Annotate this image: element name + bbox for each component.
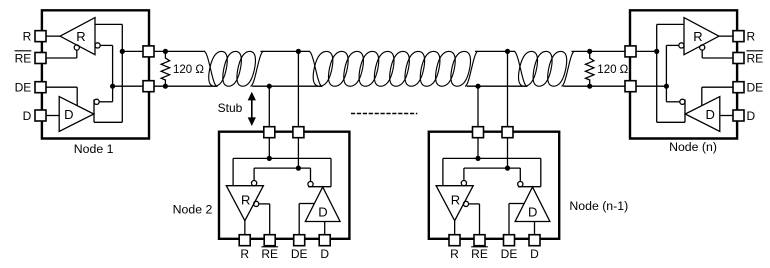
transceiver U4 node n pin RE (733, 53, 744, 64)
transceiver U1 node 1 wire RE enable (76, 50, 78, 58)
transceiver U1 node 1 box (42, 10, 149, 138)
svg-text:R: R (241, 192, 250, 207)
svg-text:D: D (747, 109, 756, 123)
transceiver U3 node n-1 driver inverting output bubble (518, 182, 523, 187)
wire stub node 2 pin B (297, 51, 299, 131)
wire twisted pair right section twist 1 (519, 51, 538, 86)
transceiver U1 node 1 wire DE enable (46, 86, 77, 88)
transceiver U1 node 1 receiver enable bubble (74, 45, 79, 50)
transceiver U3 node n-1 receiver R triangle (436, 186, 473, 221)
svg-text:R: R (240, 247, 249, 261)
wire dashed bus continuation (351, 113, 417, 115)
junction stub node2 B on bus A (296, 49, 301, 54)
transceiver U2 node 2 receiver noninverting input wire (232, 158, 234, 185)
wire bus B to node n (563, 85, 625, 87)
transceiver U1 node 1 driver inverting output bubble (94, 99, 99, 104)
transceiver U2 node 2 receiver inverting input bubble (252, 181, 257, 186)
transceiver U2 node 2 pin D (319, 235, 330, 246)
transceiver U1 node 1 pin D (35, 110, 46, 121)
junction stub node n-1 A on bus B (475, 84, 480, 89)
junction R2 bottom (587, 84, 592, 89)
transceiver U3 node n-1 wire DE enable (508, 204, 510, 235)
transceiver U1 node 1 wire net B vertical (112, 45, 114, 101)
transceiver U4 node n receiver noninverting input wire (657, 23, 684, 25)
wire twisted pair right section entry strand (514, 51, 527, 86)
transceiver U1 node 1 pin R (35, 31, 46, 42)
transceiver U1 node 1 receiver R triangle (60, 18, 95, 55)
wire twisted pair middle section twist 7 (405, 51, 425, 86)
wire twisted pair middle section entry strand (309, 51, 322, 86)
transceiver U2 node 2 driver inverting output bubble (308, 182, 313, 187)
transceiver U3 node n-1 wire inverting input (463, 168, 465, 180)
wire twisted pair middle section twist 3 (344, 51, 364, 86)
svg-text:Node 2: Node 2 (173, 202, 213, 216)
transceiver U1 node 1 wire driver noninverting output (94, 121, 122, 123)
transceiver U1 node 1 junction net A (120, 49, 125, 54)
svg-text:RE: RE (261, 247, 278, 261)
transceiver U2 node 2 wire inverting input (253, 168, 255, 180)
transceiver U1 node 1 driver D triangle (59, 97, 94, 132)
stub length arrow (251, 99, 253, 120)
transceiver U3 node n-1 driver output bar (518, 186, 541, 188)
junction R2 top (587, 49, 592, 54)
transceiver U4 node n wire D input (720, 115, 733, 117)
transceiver U3 node n-1 bus pin B (502, 127, 513, 138)
transceiver U3 node n-1 wire driver inverting output (519, 168, 521, 181)
transceiver U2 node 2 wire net A vertical (233, 157, 331, 159)
transceiver U2 node 2 bus pin A (264, 127, 275, 138)
transceiver U4 node n wire driver noninverting output (657, 121, 685, 123)
transceiver U3 node n-1 junction net A (475, 156, 480, 161)
transceiver U1 node 1 wire net A to bus pin (122, 50, 143, 52)
svg-text:RE: RE (747, 51, 764, 65)
transceiver U4 node n receiver enable bubble (700, 45, 705, 50)
svg-text:RE: RE (15, 51, 32, 65)
wire twisted pair middle section twist 6 (390, 51, 410, 86)
transceiver U4 node n receiver inverting input bubble (679, 43, 684, 48)
transceiver U4 node n bus pin B (625, 81, 636, 92)
transceiver U4 node n driver inverting output bubble (680, 99, 685, 104)
junction R1 bottom (163, 84, 168, 89)
wire stub node 2 pin A (268, 86, 270, 131)
transceiver U4 node n pin D (733, 110, 744, 121)
wire twisted pair right section exit strand (561, 51, 574, 86)
transceiver U4 node n pin R (733, 31, 744, 42)
transceiver U3 node n-1 pin D (529, 235, 540, 246)
transceiver U4 node n wire RE enable (701, 50, 703, 58)
transceiver U3 node n-1 box (429, 132, 559, 239)
transceiver U3 node n-1 wire R output (454, 221, 456, 235)
svg-text:R: R (23, 30, 32, 44)
svg-text:R: R (451, 192, 460, 207)
transceiver U2 node 2 wire net A to bus pin (268, 137, 270, 158)
transceiver U2 node 2 bus pin B (293, 127, 304, 138)
transceiver U4 node n wire driver inverting output (666, 101, 679, 103)
transceiver U2 node 2 wire DE enable (298, 204, 300, 235)
svg-text:DE: DE (291, 247, 308, 261)
transceiver U2 node 2 pin DE (294, 235, 305, 246)
wire twisted pair left section twist 2 (223, 51, 242, 86)
transceiver U4 node n wire net B to bus pin (636, 85, 667, 87)
transceiver U4 node n wire net A to bus pin (636, 50, 657, 52)
wire bus B node1 to twisted pair (154, 85, 218, 87)
transceiver U4 node n pin DE (733, 82, 744, 93)
wire bus B tap section right (467, 85, 528, 87)
transceiver U3 node n-1 bus pin A (473, 127, 484, 138)
svg-text:120 Ω: 120 Ω (173, 64, 204, 76)
wire stub node n-1 pin B (507, 51, 509, 131)
wire twisted pair middle section twist 9 (436, 51, 456, 86)
svg-text:D: D (318, 205, 327, 220)
transceiver U3 node n-1 junction net B (505, 166, 510, 171)
svg-text:R: R (747, 30, 756, 44)
svg-text:Node (n-1): Node (n-1) (569, 199, 628, 213)
wire bus B tap section left (252, 85, 322, 87)
wire twisted pair left section twist 3 (237, 51, 256, 86)
transceiver U4 node n wire DE enable (702, 86, 733, 88)
transceiver U1 node 1 wire net B to bus pin (113, 85, 144, 87)
transceiver U1 node 1 wire D input (46, 115, 59, 117)
svg-text:Node (n): Node (n) (669, 140, 717, 154)
transceiver U2 node 2 driver output bar (308, 186, 331, 188)
transceiver U2 node 2 box (219, 132, 349, 239)
transceiver U3 node n-1 receiver noninverting input wire (442, 158, 444, 185)
transceiver U2 node 2 receiver enable bubble (254, 201, 259, 206)
svg-text:DE: DE (501, 247, 518, 261)
transceiver U4 node n receiver R triangle (684, 18, 719, 55)
transceiver U2 node 2 wire net B vertical (254, 167, 310, 169)
svg-text:D: D (530, 247, 539, 261)
transceiver U3 node n-1 wire net B to bus pin (507, 137, 509, 168)
transceiver U2 node 2 wire D input (324, 222, 326, 235)
wire twisted pair right section twist 3 (548, 51, 567, 86)
transceiver U1 node 1 bus pin B (143, 81, 154, 92)
wire twisted pair middle section exit strand (465, 51, 478, 86)
transceiver U2 node 2 receiver R triangle (226, 186, 263, 221)
wire twisted pair middle section twist 1 (313, 51, 333, 86)
svg-text:DE: DE (15, 81, 32, 95)
svg-text:D: D (23, 109, 32, 123)
wire twisted pair middle section twist 5 (374, 51, 394, 86)
junction stub node n-1 B on bus A (505, 49, 510, 54)
wire stub node n-1 pin A (477, 86, 479, 131)
transceiver U1 node 1 wire R output (46, 35, 60, 37)
svg-text:Node 1: Node 1 (74, 142, 114, 156)
svg-text:D: D (64, 107, 73, 122)
transceiver U2 node 2 wire RE enable (259, 203, 270, 205)
transceiver U4 node n wire inverting input (666, 44, 678, 46)
svg-text:Stub: Stub (218, 101, 243, 115)
svg-text:R: R (693, 29, 702, 44)
transceiver U3 node n-1 wire D input (534, 222, 536, 235)
transceiver U2 node 2 junction net B (296, 166, 301, 171)
transceiver U1 node 1 pin RE (35, 53, 46, 64)
wire twisted pair middle section twist 4 (359, 51, 379, 86)
wire twisted pair right section twist 2 (533, 51, 552, 86)
transceiver U4 node n wire net B vertical (665, 45, 667, 101)
svg-text:RE: RE (471, 247, 488, 261)
transceiver U2 node 2 wire net B to bus pin (297, 137, 299, 168)
transceiver U3 node n-1 wire net A to bus pin (477, 137, 479, 158)
svg-text:D: D (320, 247, 329, 261)
svg-text:DE: DE (747, 81, 764, 95)
resistor R2 120 ohm termination (586, 51, 594, 86)
transceiver U3 node n-1 pin RE (474, 235, 485, 246)
svg-text:D: D (528, 205, 537, 220)
transceiver U1 node 1 receiver inverting input bubble (95, 43, 100, 48)
transceiver U1 node 1 receiver noninverting input wire (95, 23, 122, 25)
transceiver U2 node 2 pin R (239, 235, 250, 246)
wire twisted pair left section entry strand (204, 51, 217, 86)
transceiver U3 node n-1 wire driver noninverting output (540, 158, 542, 186)
transceiver U4 node n junction net B (664, 84, 669, 89)
wire twisted pair middle section twist 2 (328, 51, 348, 86)
transceiver U2 node 2 wire R output (244, 221, 246, 235)
transceiver U4 node n junction net A (654, 49, 659, 54)
svg-text:R: R (76, 29, 85, 44)
transceiver U1 node 1 junction net B (110, 84, 115, 89)
transceiver U1 node 1 wire net A vertical (121, 24, 123, 122)
wire twisted pair middle section twist 10 (451, 51, 471, 86)
transceiver U3 node n-1 pin DE (504, 235, 515, 246)
wire bus A node1 to twisted pair (154, 50, 205, 52)
wire bus A to node n (571, 50, 625, 52)
transceiver U2 node 2 driver D triangle (305, 187, 340, 222)
transceiver U4 node n driver output bar (684, 99, 686, 122)
transceiver U2 node 2 pin RE (264, 235, 275, 246)
transceiver U2 node 2 junction net A (267, 156, 272, 161)
transceiver U3 node n-1 wire net B vertical (464, 167, 520, 169)
transceiver U4 node n box (630, 10, 737, 138)
wire bus A tap section left (260, 50, 310, 52)
transceiver U1 node 1 pin DE (35, 82, 46, 93)
wire twisted pair left section exit strand (250, 51, 263, 86)
resistor R1 120 ohm termination (161, 51, 169, 86)
svg-text:D: D (706, 107, 715, 122)
transceiver U4 node n wire net A vertical (656, 24, 658, 122)
transceiver U2 node 2 wire driver inverting output (310, 168, 312, 181)
transceiver U3 node n-1 receiver inverting input bubble (461, 181, 466, 186)
transceiver U3 node n-1 receiver enable bubble (463, 201, 468, 206)
transceiver U4 node n bus pin A (625, 46, 636, 57)
transceiver U1 node 1 driver output bar (93, 99, 95, 122)
junction R1 top (163, 49, 168, 54)
junction stub node2 A on bus B (267, 84, 272, 89)
transceiver U3 node n-1 wire net A vertical (443, 157, 541, 159)
svg-text:120 Ω: 120 Ω (597, 64, 628, 76)
wire twisted pair left section twist 1 (209, 51, 228, 86)
transceiver U4 node n wire R output (719, 35, 733, 37)
transceiver U3 node n-1 wire RE enable (469, 203, 480, 205)
transceiver U1 node 1 wire driver inverting output (99, 101, 112, 103)
wire twisted pair middle section twist 8 (420, 51, 440, 86)
wire bus A tap section right (475, 50, 515, 52)
transceiver U1 node 1 wire inverting input (100, 44, 112, 46)
transceiver U1 node 1 bus pin A (143, 46, 154, 57)
transceiver U4 node n driver D triangle (685, 97, 720, 132)
svg-text:R: R (450, 247, 459, 261)
transceiver U3 node n-1 driver D triangle (515, 187, 550, 222)
transceiver U2 node 2 wire driver noninverting output (330, 158, 332, 186)
transceiver U3 node n-1 pin R (449, 235, 460, 246)
